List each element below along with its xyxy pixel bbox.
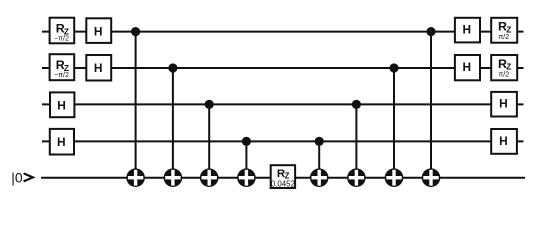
wire q2 [42,103,524,105]
control dot CNOT4 [242,137,251,146]
wire q4 ancilla [41,177,525,179]
CNOT target 1 on ancilla [126,168,145,187]
svg-text:H: H [94,25,103,39]
wire q1 [42,67,524,69]
gate H q1 right [455,55,480,80]
control dot CNOT3 [205,100,214,109]
gate H q2 right [491,92,517,117]
gate RZ(pi/2) q0 right [491,18,517,43]
gate H q0 left [86,18,111,43]
gate H q3 left [50,129,74,155]
vertical wire CNOT4 [245,141,247,177]
svg-text:Z: Z [506,25,511,35]
control dot CNOT7 [389,63,398,72]
svg-text:π/2: π/2 [498,34,509,41]
svg-text:|0: |0 [11,169,23,185]
CNOT target 8 on ancilla [422,168,441,187]
svg-text:0.0452: 0.0452 [271,180,295,189]
vertical wire CNOT8 [430,32,432,178]
CNOT target 4 on ancilla [237,168,256,187]
svg-text:−π/2: −π/2 [54,34,69,42]
qubit label ket bracket > [24,173,33,181]
gate RZ(-pi/2) q1 left [50,54,75,80]
gate H q3 right [491,129,517,154]
control dot CNOT8 [426,27,435,36]
gate RZ(-pi/2) q0 left [50,18,75,44]
control dot CNOT5 [315,137,324,146]
control dot CNOT6 [352,100,361,109]
svg-text:H: H [94,61,103,75]
vertical wire CNOT6 [355,104,357,177]
gate H q2 left [50,92,74,117]
svg-text:H: H [463,23,472,37]
vertical wire CNOT2 [172,68,174,178]
CNOT target 3 on ancilla [200,168,219,187]
svg-text:−π/2: −π/2 [54,71,69,79]
svg-text:π/2: π/2 [498,71,509,78]
svg-text:H: H [499,97,508,111]
qubit label |0 [11,169,23,185]
control dot CNOT2 [168,63,177,72]
wire q0 [42,31,524,33]
vertical wire CNOT1 [135,32,137,178]
gate RZ(0.0452) ancilla [271,165,295,188]
vertical wire CNOT3 [208,104,210,177]
CNOT target 5 on ancilla [310,168,329,187]
svg-text:H: H [463,60,472,74]
svg-text:H: H [57,99,66,113]
svg-text:H: H [57,135,66,149]
CNOT target 2 on ancilla [164,168,183,187]
svg-text:Z: Z [506,62,511,72]
gate H q1 left [86,55,111,81]
vertical wire CNOT5 [318,141,320,177]
control dot CNOT1 [131,27,140,36]
vertical wire CNOT7 [393,68,395,178]
svg-text:H: H [499,134,508,148]
gate RZ(pi/2) q1 right [491,55,517,80]
CNOT target 7 on ancilla [385,168,404,187]
CNOT target 6 on ancilla [347,168,366,187]
gate H q0 right [455,18,480,43]
wire q3 [42,140,524,142]
